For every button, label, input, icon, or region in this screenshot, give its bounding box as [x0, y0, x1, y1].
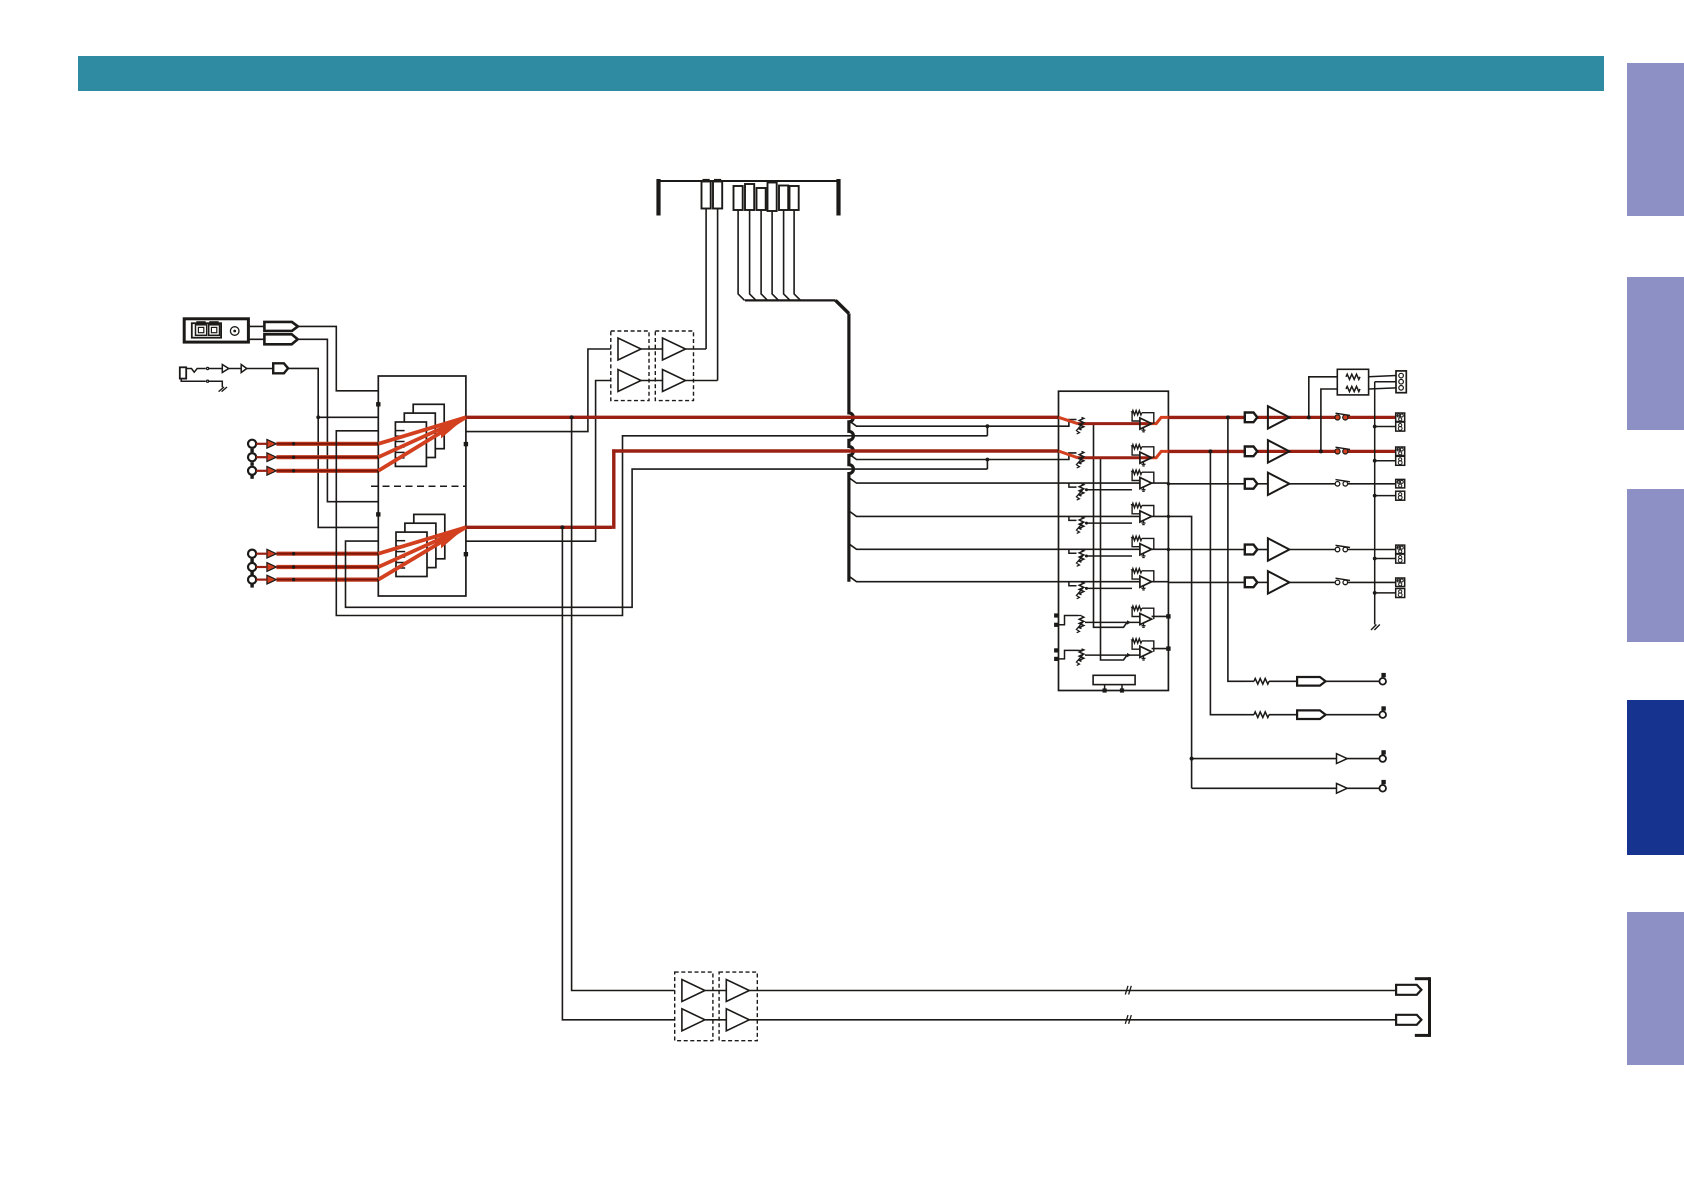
mixer monitor channel 7 input line [1085, 621, 1140, 623]
junction phones L [1190, 757, 1194, 761]
output row 3 mute switch [1336, 480, 1351, 482]
output row 5 plug [1245, 578, 1258, 588]
wire U2-1 to U2-2 bottom [641, 380, 663, 382]
red main R bus [466, 526, 612, 529]
output row 5 jack pair [1396, 578, 1405, 587]
junction row2 tap [1208, 449, 1212, 453]
output row 3 plug [1245, 479, 1258, 489]
buffer box U2-2 [655, 331, 693, 401]
trim row 1 jack [1381, 673, 1385, 677]
output row 3 jack pair [1396, 479, 1405, 488]
junction bus branch 1 [986, 424, 990, 428]
mixer monitor channel 8 pads [1054, 648, 1058, 652]
J1 sleeve branch [181, 379, 206, 382]
phones jack J1 [180, 367, 186, 378]
junction row1 to rec [1307, 415, 1311, 419]
trim row 1 VR body [1297, 677, 1326, 686]
junction bus branch 2 [986, 458, 990, 462]
output row 3 line [1257, 483, 1268, 485]
mixer monitor channel 7 output pad [1152, 615, 1169, 617]
mixer aux connector box [1093, 675, 1135, 684]
mixer internal L bus [1094, 424, 1128, 628]
level pot VR2 [1079, 451, 1084, 464]
connector CN1 pin 2 [713, 182, 722, 209]
buffer box U2-1 [611, 331, 649, 401]
wire U2-1 to U2-2 top [641, 348, 663, 350]
connector CN1 right cap [836, 179, 840, 216]
wire row2 tap to trim row 2 [1210, 451, 1246, 714]
wires CN1 pins 3-8 to cable bundle [738, 210, 745, 300]
sidebar tab 5 [1627, 912, 1684, 1065]
output row 2 amp [1268, 440, 1290, 462]
trim row 2 jack [1381, 706, 1385, 710]
output row 5 amp [1268, 571, 1290, 593]
connector CN1 pin 1 [702, 182, 711, 209]
level pot VR3 [1079, 484, 1084, 497]
mixer block U3 outline [1059, 391, 1169, 690]
wire CN1 pin2 to buffer U2 output R [717, 209, 719, 381]
wire mixer ch3 to output row 3 [1168, 483, 1244, 485]
pad right lower [464, 552, 468, 556]
connector CN1 pin 8 [790, 186, 799, 210]
buffer box U4-1 [675, 972, 713, 1041]
red fan T2 [378, 527, 466, 553]
sidebar tab 4 (active, dark blue) [1627, 700, 1684, 855]
mixer channel 5 wire [1059, 548, 1140, 550]
output row 3 sleeve wire [1375, 495, 1396, 497]
ferrite plug FB2 [248, 338, 264, 340]
tap junction R to rec [560, 525, 564, 529]
input connector IN-A1 [248, 440, 256, 448]
cable bus fan-out branches [849, 421, 988, 427]
output row 4 jack pair [1396, 545, 1405, 554]
op-amp U3-A4 [1140, 511, 1152, 522]
cable mark R [1125, 1015, 1128, 1024]
mixer channel 3 output [1152, 482, 1169, 484]
output row 4 mute switch [1336, 545, 1351, 547]
op-amp U3-A7 [1140, 614, 1152, 625]
level pot VR6 [1079, 582, 1084, 595]
output row 1 amp [1268, 406, 1290, 428]
CN2 indicator circle [230, 327, 239, 336]
input connector IN-B3 [248, 576, 256, 584]
input buffer IN-A1 [267, 439, 277, 448]
output row 2 plug [1245, 447, 1258, 457]
output row 1 line [1257, 416, 1335, 419]
shield pins IN-B [250, 559, 253, 562]
output row 5 mute switch [1336, 578, 1351, 580]
phones jack 1 [1381, 750, 1385, 754]
dashed divider [371, 485, 466, 487]
wire block to buffer U2A input [466, 349, 611, 432]
phones jack 2 [1381, 780, 1385, 784]
wires U4-1 to U4-2 [705, 990, 726, 992]
phones row 2 wire [1192, 787, 1337, 789]
input buffer IN-A3 [267, 466, 277, 475]
rec attenuator box [1337, 369, 1368, 395]
output row 2 mute switch [1336, 447, 1351, 449]
wire block to buffer U2B input [466, 381, 611, 542]
cable mark L [1125, 986, 1128, 995]
red main L bus [466, 416, 1059, 419]
input buffer IN-A2 [267, 453, 277, 462]
rec cable bracket [1415, 977, 1430, 980]
phones row 1 wire [1192, 758, 1337, 760]
op-amp U3-A3 [1140, 478, 1152, 489]
shield pins IN-A [250, 449, 253, 452]
tap junction L to rec [570, 415, 574, 419]
output row 1 sleeve wire [1375, 426, 1396, 428]
mixer monitor channel 8 input line [1085, 654, 1140, 656]
trim row 1 wire to jack [1326, 680, 1380, 682]
input connector IN-B1 [248, 550, 256, 558]
cable bus vertical [849, 314, 854, 582]
cable bundle horizontal [745, 299, 836, 301]
resistor R1 [1346, 374, 1360, 379]
pad left lower [376, 512, 380, 516]
output row 2 jack pair [1396, 447, 1405, 456]
mixer channel 6 wire [1059, 581, 1140, 583]
sidebar tab 1 [1627, 63, 1684, 216]
mixer internal R bus [1101, 458, 1128, 660]
wire tap L down to rec buffers [572, 417, 675, 990]
rec plug L [1396, 985, 1421, 995]
mixer channel 1 (L main) red path [1059, 417, 1078, 423]
output row 4 sleeve wire [1375, 558, 1396, 560]
input buffer IN-B2 [267, 563, 277, 572]
output row 5 line [1257, 581, 1268, 583]
transformer T2 [414, 514, 445, 558]
wire FB1 to transformer block (net P1) [298, 326, 378, 390]
wire U2-2 top output up to CN1 pin1 [686, 348, 707, 350]
red input wire IN-B1 [256, 553, 267, 555]
output row 4 line [1257, 549, 1268, 551]
op-amp U3-A1 [1140, 418, 1152, 429]
output row 4 amp [1268, 538, 1290, 560]
input buffer IN-B1 [267, 549, 277, 558]
trim row 2 resistor [1246, 714, 1254, 716]
op-amp U3-A5 [1140, 544, 1152, 555]
mixer channel 5 output [1152, 548, 1169, 550]
ground bus chassis symbol [1371, 625, 1376, 631]
digital output connector CN2 [184, 319, 248, 342]
red input wire IN-B3 [256, 578, 267, 580]
resistor R2 [1346, 386, 1360, 391]
wire FB2 to transformer block (net P2) [298, 339, 378, 501]
level pot VR8 [1079, 649, 1084, 662]
pad right upper [464, 442, 468, 446]
red wire mixer L to row1 [1168, 416, 1244, 419]
op-amp U3-A2 [1140, 452, 1152, 463]
op-amp U3-A8 [1140, 646, 1152, 657]
output row 1 plug [1245, 413, 1258, 423]
teal header bar [78, 56, 1604, 91]
ferrite plug FB3 [273, 363, 288, 373]
ground bus vertical [1374, 382, 1376, 625]
wire branch2 into mixer pot 2 [987, 453, 1076, 460]
mixer channel 4 output [1152, 515, 1169, 517]
cable bundle corner [836, 300, 849, 313]
wire row1 to rec resistor [1309, 377, 1338, 418]
mixer monitor channel 8 output pad [1152, 648, 1169, 650]
transformer T1 [413, 404, 444, 448]
chassis ground [219, 387, 224, 392]
junction row2 to rec [1319, 449, 1323, 453]
level pot VR4 [1079, 517, 1084, 530]
rec line L to plug [749, 990, 1396, 992]
ferrite plug FB1 [248, 325, 264, 327]
J1 switch contact [186, 369, 206, 373]
sidebar tab 3 [1627, 489, 1684, 642]
output row 1 mute switch [1336, 413, 1351, 415]
input connector IN-A2 [248, 453, 256, 461]
sidebar tab 2 [1627, 277, 1684, 430]
wire tap R down to rec buffers [562, 527, 674, 1020]
red wire mixer R to row2 [1168, 450, 1244, 453]
output row 5 sleeve wire [1375, 592, 1396, 594]
wire mixer ch6 to output row 5 [1168, 581, 1244, 583]
output row 2 line [1257, 450, 1335, 453]
output row 2 sleeve wire [1375, 460, 1396, 462]
red input wire IN-B2 [256, 566, 267, 568]
rec line R to plug [749, 1019, 1396, 1021]
trim row 2 wire to jack [1326, 714, 1380, 716]
input connector IN-B2 [248, 563, 256, 571]
mixer channel 6 output [1152, 581, 1169, 583]
output row 4 plug [1245, 545, 1258, 555]
net B2 (block to mixer ch row 2 aux) [346, 469, 988, 607]
buffer amp A2 [241, 365, 247, 373]
red input wire IN-A1 [256, 443, 267, 445]
connector CN1 pin 4 [745, 184, 754, 210]
wire row2 to rec resistor [1321, 389, 1337, 451]
red input wire IN-A2 [256, 456, 267, 458]
level pot VR1 [1079, 417, 1084, 430]
connector CN1 pin 6 [768, 183, 777, 212]
mixer monitor channel 7 pads [1054, 613, 1058, 617]
wire mixer ch4 to phones amps [1168, 516, 1191, 788]
mixer channel 2 (R main) red path [1059, 451, 1078, 458]
connector CN1 pin 7 [779, 186, 788, 211]
connector CN1 pin 3 [734, 186, 743, 210]
level pot VR7 [1079, 616, 1084, 629]
rec out connector [1396, 371, 1406, 393]
output row 1 jack pair [1396, 413, 1405, 422]
op-amp U3-A6 [1140, 576, 1152, 587]
phones amp 2 [1337, 783, 1348, 793]
trim row 1 resistor [1246, 680, 1254, 682]
wire CN1 pin1 to buffer U2 output L [705, 209, 707, 350]
connector CN1 top rail [659, 180, 839, 182]
wire row1 tap to trim row 1 [1228, 417, 1246, 681]
buffer box U4-2 [719, 972, 757, 1041]
red input wire IN-A3 [256, 470, 267, 472]
input buffer IN-B3 [267, 575, 277, 584]
wire U2-2 bottom output up to CN1 pin2 [686, 380, 718, 382]
connector CN1 left cap [656, 179, 660, 216]
connector CN1 pin 5 [757, 188, 766, 210]
isolation block outline [378, 376, 466, 596]
red fan T1 [378, 417, 466, 444]
phones amp 1 [1337, 754, 1348, 764]
mixer channel 3 wire [1059, 482, 1140, 484]
wire J1 to transformer primaries (net PH) [288, 368, 378, 527]
input connector IN-A3 [248, 467, 256, 475]
rec plug R [1396, 1015, 1421, 1025]
trim row 2 VR body [1297, 710, 1326, 719]
level pot VR5 [1079, 550, 1084, 562]
junction net PH upper [316, 415, 320, 419]
net B1 (block to mixer ch row 1 aux) [336, 431, 987, 616]
wires rec box to rec jacks [1369, 376, 1396, 377]
pad left upper [376, 402, 380, 406]
junction row1 tap [1226, 415, 1230, 419]
wire branch1 into mixer pot 1 [987, 420, 1076, 427]
mixer channel 4 wire [1059, 515, 1140, 517]
output row 3 amp [1268, 473, 1290, 495]
wire mixer ch5 to output row 4 [1168, 549, 1244, 551]
buffer amp A1 [222, 365, 228, 373]
